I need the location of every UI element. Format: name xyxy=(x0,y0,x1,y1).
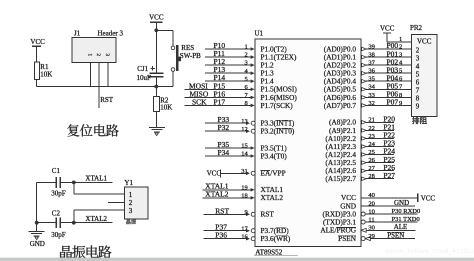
wire VCC branch to switch xyxy=(156,30,173,46)
svg-text:3: 3 xyxy=(399,52,402,59)
svg-text:RST: RST xyxy=(215,206,229,215)
capacitor C2 30pF xyxy=(37,210,74,239)
U1 pin 31 EA/VPP tied to VCC xyxy=(207,168,256,178)
pushbutton RES SW-PB xyxy=(171,44,201,87)
U1 pin 38 (AD1)P0.1 / net P01 to PR2 pin 3 xyxy=(362,49,412,59)
svg-text:R1: R1 xyxy=(40,63,49,71)
svg-text:36: 36 xyxy=(368,68,375,75)
svg-text:PSEN: PSEN xyxy=(338,234,357,243)
svg-text:1: 1 xyxy=(244,44,247,51)
svg-text:VCC: VCC xyxy=(421,195,436,203)
svg-text:3: 3 xyxy=(104,53,110,56)
junction VCC branch xyxy=(154,28,158,32)
svg-text:weixin_believe_cloud_41301108: weixin_believe_cloud_41301108 xyxy=(384,249,474,255)
svg-text:2: 2 xyxy=(399,43,402,50)
overlines (active-low) xyxy=(261,120,405,236)
faint line under AT89S52 xyxy=(254,255,298,257)
U1 pin 6 P1.5(MOSI) / net P15 xyxy=(185,81,255,91)
svg-text:P1.7(SCK): P1.7(SCK) xyxy=(261,101,294,110)
svg-text:2: 2 xyxy=(416,46,420,54)
svg-text:GND: GND xyxy=(30,240,45,248)
U1 pin 28 (A15)P2.7 / net P27 xyxy=(362,171,396,181)
svg-text:1: 1 xyxy=(399,36,402,43)
bottom gray strip xyxy=(0,258,474,261)
svg-text:2: 2 xyxy=(129,199,133,207)
U1 pin 20 GND / net GND xyxy=(361,199,415,208)
wire reset node (horizontal) xyxy=(37,86,173,88)
U1 pin 4 P1.3 / net P13 xyxy=(205,65,255,75)
svg-text:RST: RST xyxy=(100,96,114,104)
U1 pin 12 P3.2(INT0) / net P32 xyxy=(205,123,255,133)
svg-text:RES: RES xyxy=(181,44,194,52)
U1 internal right pin names xyxy=(320,44,356,243)
U1 pin 7 P1.6(MISO) / net P16 xyxy=(185,89,255,99)
svg-text:ALE: ALE xyxy=(394,223,408,231)
svg-text:39: 39 xyxy=(368,43,375,50)
U1 pin 22 (A9)P2.1 / net P21 xyxy=(362,123,396,133)
svg-text:5: 5 xyxy=(244,76,247,83)
svg-text:XTAL1: XTAL1 xyxy=(85,175,107,183)
svg-text:8: 8 xyxy=(244,100,247,107)
U1 pin 19 XTAL1 / net XTAL1 xyxy=(203,182,255,192)
power VCC (reset pull-up R1) xyxy=(30,38,45,62)
svg-text:30pF: 30pF xyxy=(51,231,66,239)
svg-text:25: 25 xyxy=(368,149,375,156)
U1 pin 14 P3.4(T0) / net P34 xyxy=(205,148,255,158)
svg-text:Y1: Y1 xyxy=(124,179,133,187)
svg-text:6: 6 xyxy=(416,79,420,87)
svg-text:P32: P32 xyxy=(218,123,230,132)
svg-text:P17: P17 xyxy=(214,97,226,106)
svg-text:6: 6 xyxy=(244,84,248,91)
title 复位电路 (reset circuit) xyxy=(67,124,79,136)
svg-text:XTAL2: XTAL2 xyxy=(205,190,228,199)
svg-text:31: 31 xyxy=(241,168,248,175)
svg-text:3: 3 xyxy=(416,54,420,62)
ground (below R2) xyxy=(149,127,165,135)
svg-text:9: 9 xyxy=(416,103,420,111)
svg-text:P30 RXD0: P30 RXD0 xyxy=(392,208,421,215)
U1 pin 27 (A14)P2.6 / net P26 xyxy=(362,163,396,173)
svg-text:CJ1: CJ1 xyxy=(137,65,148,73)
power VCC (reset RC branch) xyxy=(149,14,164,73)
net label XTAL1 (crystal side) and wire xyxy=(74,175,113,183)
svg-text:10uF: 10uF xyxy=(137,74,152,82)
connector J1 Header 3 xyxy=(72,29,123,86)
ground GND (crystal) xyxy=(29,231,45,248)
svg-text:26: 26 xyxy=(368,157,375,164)
stub Y1 pin 2 xyxy=(108,201,125,203)
svg-text:8: 8 xyxy=(399,92,402,99)
svg-text:30: 30 xyxy=(368,225,375,232)
svg-text:13: 13 xyxy=(241,118,248,125)
svg-text:37: 37 xyxy=(368,60,375,67)
svg-text:22: 22 xyxy=(368,125,375,132)
wire XTAL2 node to Y1 pin 3 xyxy=(74,210,125,223)
junction XTAL2 node xyxy=(72,221,76,225)
svg-text:8: 8 xyxy=(416,95,420,103)
svg-text:10K: 10K xyxy=(160,104,172,112)
svg-text:U1: U1 xyxy=(255,29,264,37)
svg-text:2: 2 xyxy=(95,53,101,56)
svg-text:17: 17 xyxy=(241,225,248,232)
svg-text:4: 4 xyxy=(416,62,420,70)
svg-text:19: 19 xyxy=(241,184,248,191)
svg-text:4: 4 xyxy=(244,68,248,75)
svg-text:SCK: SCK xyxy=(192,97,207,106)
U1 pin 9 RST / net RST xyxy=(204,206,256,216)
junction reset node at CJ1/R2 xyxy=(154,85,158,89)
svg-text:27: 27 xyxy=(368,165,375,172)
svg-text:29: 29 xyxy=(368,233,375,240)
label 排阻 (resistor network) xyxy=(412,117,419,124)
svg-text:XTAL2: XTAL2 xyxy=(85,215,107,223)
svg-text:1: 1 xyxy=(129,191,133,199)
svg-text:35: 35 xyxy=(368,76,375,83)
U1 pin 1 P1.0(T2) / net P10 xyxy=(205,41,255,51)
svg-text:11: 11 xyxy=(368,216,374,223)
svg-text:32: 32 xyxy=(368,100,375,107)
svg-text:C1: C1 xyxy=(52,167,61,175)
U1 pin 24 (A11)P2.3 / net P23 xyxy=(362,139,396,149)
svg-text:C2: C2 xyxy=(52,210,61,218)
svg-text:P34: P34 xyxy=(218,148,230,157)
U1 pin 2 P1.1(T2EX) / net P11 xyxy=(205,49,255,59)
U1 pin 33 (AD6)P0.6 / net P06 to PR2 pin 8 xyxy=(362,90,412,100)
svg-text:9: 9 xyxy=(399,100,402,107)
wire J1 pin2 to RST label xyxy=(98,63,100,108)
svg-text:28: 28 xyxy=(368,173,375,180)
U1 pin 35 (AD4)P0.4 / net P04 to PR2 pin 6 xyxy=(362,73,412,83)
svg-text:2: 2 xyxy=(244,52,247,59)
svg-text:14: 14 xyxy=(241,151,248,158)
U1 pin 36 (AD3)P0.3 / net P03 to PR2 pin 5 xyxy=(362,65,412,75)
svg-text:30pF: 30pF xyxy=(51,190,66,198)
svg-text:VCC: VCC xyxy=(149,14,164,22)
U1 pin 39 (AD0)P0.0 / net P00 to PR2 pin 2 xyxy=(362,41,412,51)
svg-text:5: 5 xyxy=(399,68,402,75)
svg-text:18: 18 xyxy=(241,192,248,199)
svg-text:7: 7 xyxy=(416,87,420,95)
svg-text:23: 23 xyxy=(368,133,375,140)
svg-text:34: 34 xyxy=(368,84,375,91)
svg-text:12: 12 xyxy=(241,126,248,133)
svg-text:20: 20 xyxy=(368,200,375,207)
svg-text:P27: P27 xyxy=(383,171,395,180)
U1 pin 15 P3.5(T1) / net P35 xyxy=(205,140,255,150)
svg-text:1: 1 xyxy=(87,53,93,56)
svg-text:9: 9 xyxy=(244,209,247,216)
svg-text:VCC: VCC xyxy=(380,25,395,33)
U1 pin 3 P1.2 / net P12 xyxy=(205,57,255,67)
wire C1-C2 left bus xyxy=(36,182,38,231)
svg-text:3: 3 xyxy=(129,207,133,215)
net label XTAL2 (crystal side) and wire xyxy=(74,215,113,223)
junction XTAL1 node xyxy=(72,181,76,185)
svg-text:40: 40 xyxy=(368,192,375,199)
U1 internal left pin names xyxy=(261,44,298,243)
svg-text:33: 33 xyxy=(368,92,375,99)
svg-text:SW-PB: SW-PB xyxy=(180,52,201,60)
svg-text:P31 TXD0: P31 TXD0 xyxy=(392,216,420,223)
IC U1 AT89S52 body xyxy=(255,29,362,256)
svg-text:5: 5 xyxy=(416,71,420,79)
title 晶振电路 (crystal oscillator circuit) xyxy=(60,246,72,259)
svg-text:15: 15 xyxy=(241,143,248,150)
U1 pin 26 (A13)P2.5 / net P25 xyxy=(362,155,396,165)
svg-text:10: 10 xyxy=(368,208,375,215)
U1 pin 37 (AD2)P0.2 / net P02 to PR2 pin 4 xyxy=(362,57,412,67)
capacitor C1 30pF xyxy=(37,167,74,198)
label 晶振 (crystal) xyxy=(126,219,130,224)
svg-text:GND: GND xyxy=(394,199,409,207)
U1 pin 11 (TXD)P3.1 / net P31 TXD0 xyxy=(361,216,420,224)
svg-text:Header 3: Header 3 xyxy=(98,29,124,37)
U1 pin 8 P1.7(SCK) / net P17 xyxy=(185,97,255,107)
svg-text:21: 21 xyxy=(368,117,375,124)
U1 pin 25 (A12)P2.4 / net P24 xyxy=(362,147,396,157)
U1 pin 30 ALE/PROG / net ALE xyxy=(361,223,415,232)
svg-text:VCC: VCC xyxy=(207,170,222,178)
svg-text:24: 24 xyxy=(368,141,375,148)
U1 pin 40 VCC power terminal xyxy=(361,192,435,202)
U1 pin 17 P3.7(RD) / net P37 xyxy=(204,223,256,233)
resistor R2 10K xyxy=(154,87,173,128)
svg-text:J1: J1 xyxy=(74,29,81,37)
resistor R1 10K xyxy=(34,62,52,86)
svg-text:P3.4(T0): P3.4(T0) xyxy=(261,151,288,160)
U1 pin 21 (A8)P2.0 / net P20 xyxy=(362,115,396,125)
U1 pin 32 (AD7)P0.7 / net P07 to PR2 pin 9 xyxy=(362,98,412,108)
svg-text:38: 38 xyxy=(368,52,375,59)
svg-text:P07: P07 xyxy=(387,98,399,107)
capacitor CJ1 10uF (polarized) xyxy=(137,65,164,86)
svg-text:VCC: VCC xyxy=(417,37,432,45)
U1 pin 5 P1.4 / net P14 xyxy=(205,73,255,83)
svg-text:PSEN: PSEN xyxy=(387,232,404,240)
svg-text:PR2: PR2 xyxy=(410,24,423,32)
U1 pin 29 PSEN / net PSEN xyxy=(361,232,415,241)
junction left bus at C2 xyxy=(35,221,39,225)
svg-text:XTAL2: XTAL2 xyxy=(261,193,284,202)
U1 pin 23 (A10)P2.2 / net P22 xyxy=(362,131,396,141)
svg-text:RST: RST xyxy=(261,210,275,219)
power VCC (PR2) xyxy=(380,25,395,42)
wire XTAL1 node to Y1 pin 1 xyxy=(74,182,125,194)
wire VCC to PR2 pin 1 xyxy=(387,36,412,43)
crystal Y1 xyxy=(124,179,147,219)
svg-text:10K: 10K xyxy=(40,71,52,79)
svg-text:VCC: VCC xyxy=(30,38,45,46)
U1 pin 16 P3.6(WR) / net P36 xyxy=(204,231,256,241)
U1 pin 13 P3.3(INT1) / net P33 xyxy=(205,115,255,125)
svg-text:(AD7)P0.7: (AD7)P0.7 xyxy=(324,101,357,110)
U1 pin 18 XTAL2 / net XTAL2 xyxy=(203,190,255,200)
svg-text:16: 16 xyxy=(241,233,248,240)
svg-text:(A15)P2.7: (A15)P2.7 xyxy=(325,174,356,183)
resistor network PR2 (排阻) xyxy=(410,24,437,116)
U1 pin 10 (RXD)P3.0 / net P30 RXD0 xyxy=(361,208,420,216)
svg-text:7: 7 xyxy=(244,92,248,99)
svg-text:P36: P36 xyxy=(215,231,227,240)
svg-text:3: 3 xyxy=(244,60,247,67)
U1 pin 34 (AD5)P0.5 / net P05 to PR2 pin 7 xyxy=(362,82,412,92)
